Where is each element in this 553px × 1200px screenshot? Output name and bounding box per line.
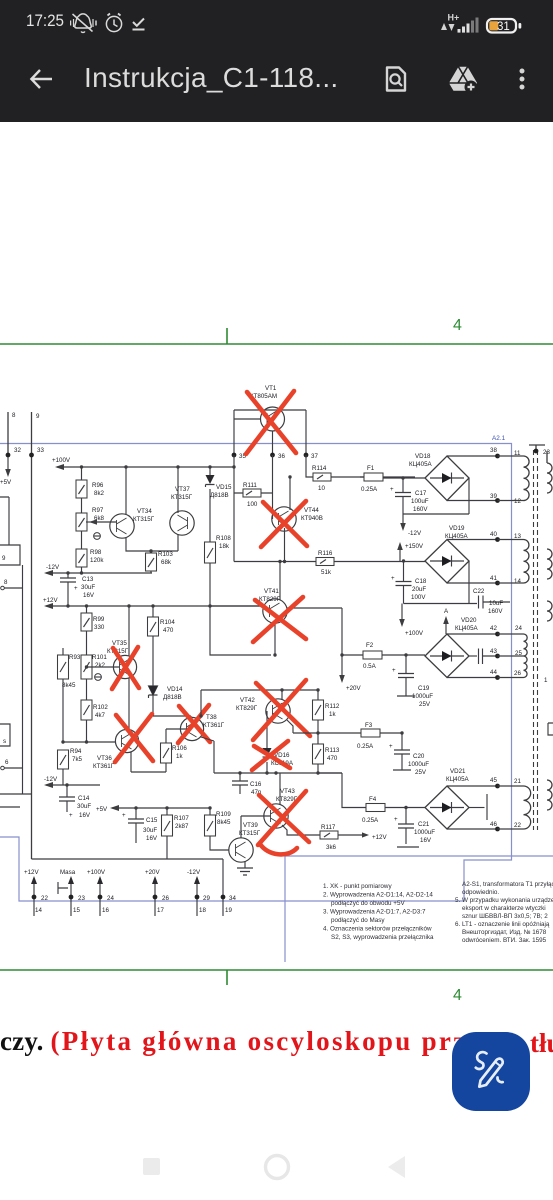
wire R116 to VD19 left vertex <box>402 559 405 562</box>
svg-text:0.5A: 0.5A <box>363 663 377 670</box>
red X over VT42 <box>253 680 310 740</box>
svg-text:25V: 25V <box>415 769 427 776</box>
wire VT42 base column + VD16 <box>266 711 268 773</box>
svg-text:120k: 120k <box>90 557 104 564</box>
svg-text:51k: 51k <box>321 569 332 576</box>
wire VD18 bottom to node39 <box>447 500 497 502</box>
svg-text:1k: 1k <box>176 753 183 760</box>
svg-text:R99: R99 <box>93 616 105 623</box>
find-in-page icon <box>381 64 411 94</box>
meas point 2 <box>95 674 102 681</box>
svg-text:46: 46 <box>490 821 497 828</box>
wire VT36 base bus <box>63 741 116 743</box>
pin +100V <box>87 869 114 916</box>
svg-text:31: 31 <box>497 21 510 33</box>
wire node36 column <box>272 455 274 519</box>
svg-text:8k2: 8k2 <box>94 490 105 497</box>
arrow +150V up <box>399 549 401 561</box>
wire VD19 bottom to node41 <box>447 582 497 584</box>
svg-text:КТ315Г: КТ315Г <box>133 516 155 523</box>
transformer secondary right clipped <box>547 451 552 810</box>
svg-text:VD15: VD15 <box>216 484 232 491</box>
point A arrow <box>445 623 447 634</box>
svg-text:+: + <box>392 667 396 674</box>
right clipped box <box>548 723 553 735</box>
back arrow <box>28 66 54 92</box>
wire VT35 emitter <box>128 678 130 729</box>
+12V rail <box>46 605 263 607</box>
capacitor bar right of VD21 <box>469 807 485 809</box>
transformer node column <box>490 447 522 831</box>
svg-text:18: 18 <box>199 907 206 914</box>
red X over VD16 <box>252 741 290 770</box>
svg-text:C21: C21 <box>418 821 430 828</box>
capacitor C14 <box>59 783 91 819</box>
wire VD20 bottom to node44 <box>447 677 497 679</box>
green top tick <box>226 328 228 344</box>
svg-text:+20V: +20V <box>145 869 160 876</box>
svg-text:КТ315Г: КТ315Г <box>171 494 193 501</box>
zener VD15 <box>206 467 233 542</box>
pin 6 stub <box>1 766 5 770</box>
svg-text:2k87: 2k87 <box>175 823 189 830</box>
svg-text:9: 9 <box>2 555 6 562</box>
svg-text:+: + <box>69 812 73 819</box>
left bus wire <box>22 565 24 794</box>
wire VT41 emitter return <box>210 606 275 655</box>
capacitor C22 <box>473 588 510 615</box>
svg-text:9: 9 <box>36 413 40 420</box>
svg-text:A2-S1, transformatora T1 przył: A2-S1, transformatora T1 przyłąc <box>462 881 553 888</box>
resistor R108 <box>205 535 232 606</box>
svg-text:1: 1 <box>544 677 548 684</box>
wire VT38 emitter to bus <box>201 737 214 773</box>
pin +12V <box>24 869 48 916</box>
svg-text:37: 37 <box>311 453 318 460</box>
wire VT41 base <box>210 605 263 607</box>
wire VD20 top to node42 <box>447 633 497 635</box>
svg-text:4: 4 <box>453 317 462 334</box>
svg-text:C17: C17 <box>415 490 427 497</box>
svg-text:VT39: VT39 <box>243 822 258 829</box>
svg-text:R106: R106 <box>172 745 187 752</box>
bridge VD19 <box>425 525 469 583</box>
transistor VT35 <box>107 640 137 679</box>
node 35 <box>232 453 237 458</box>
svg-text:6: 6 <box>5 759 9 766</box>
svg-text:10: 10 <box>318 485 325 492</box>
svg-text:16V: 16V <box>79 812 91 819</box>
svg-text:C19: C19 <box>418 685 430 692</box>
svg-text:25V: 25V <box>419 701 431 708</box>
transistor VT34 <box>110 508 155 538</box>
-12V rail lower <box>46 784 100 786</box>
wire 773 to F4 column <box>318 773 366 808</box>
svg-text:-12V: -12V <box>46 564 60 571</box>
left module box 5 <box>0 724 10 746</box>
diode VD16 <box>263 748 294 767</box>
svg-text:36: 36 <box>278 453 285 460</box>
svg-text:C14: C14 <box>78 795 90 802</box>
wire emitter return 772 <box>131 771 166 773</box>
svg-text:R103: R103 <box>158 551 173 558</box>
svg-text:+: + <box>74 585 78 592</box>
svg-text:eksport w charakterze wtyczki: eksport w charakterze wtyczki <box>462 905 546 912</box>
arrow +100V down from bus <box>401 604 403 621</box>
meas point 1 <box>94 533 101 540</box>
svg-text:odpowiednio.: odpowiednio. <box>462 889 499 896</box>
svg-text:+5V: +5V <box>0 479 12 486</box>
red X over VT35 <box>112 647 139 689</box>
resistor R98 <box>76 549 104 575</box>
svg-text:Т38: Т38 <box>206 714 217 721</box>
bottom nav <box>143 1158 160 1175</box>
svg-text:-12V: -12V <box>44 776 58 783</box>
capacitor C13 <box>60 571 95 607</box>
pin 8 stub <box>1 586 5 590</box>
wire input 8/32 <box>7 412 9 457</box>
resistor R101 <box>81 654 107 700</box>
svg-text:470: 470 <box>327 755 338 762</box>
svg-text:C15: C15 <box>146 817 158 824</box>
red X over VT41 <box>253 597 306 642</box>
wire 733 bus + fuse F3 <box>293 732 403 734</box>
svg-text:68k: 68k <box>161 559 172 566</box>
svg-text:2k2: 2k2 <box>95 662 106 669</box>
svg-text:R104: R104 <box>160 619 175 626</box>
svg-text:+: + <box>122 812 126 819</box>
pin +20V <box>145 869 169 916</box>
wire lower left 2 <box>0 806 20 808</box>
red X over VT44 <box>261 501 307 547</box>
fuse F4 <box>362 796 425 824</box>
fuse F1 <box>360 465 415 493</box>
red X over VT38 <box>178 705 210 743</box>
svg-text:-12V: -12V <box>408 530 422 537</box>
svg-text:26: 26 <box>162 895 169 902</box>
resistor R114 <box>312 465 364 492</box>
transistor VT41 <box>259 588 287 623</box>
green top rule <box>0 343 553 345</box>
svg-text:VT35: VT35 <box>112 640 127 647</box>
svg-text:19: 19 <box>225 907 232 914</box>
svg-text:30uF: 30uF <box>77 803 91 810</box>
svg-text:КТ829Г: КТ829Г <box>259 596 281 603</box>
svg-text:39: 39 <box>490 493 497 500</box>
svg-text:C18: C18 <box>415 578 427 585</box>
resistor R103 <box>146 551 174 573</box>
svg-text:8: 8 <box>12 412 16 419</box>
svg-text:R93: R93 <box>69 654 81 661</box>
svg-text:+20V: +20V <box>346 685 361 692</box>
arrow +5V down <box>7 457 9 470</box>
wire VT43 emitter to R117 <box>282 825 320 835</box>
notes column left <box>323 883 434 941</box>
svg-text:+150V: +150V <box>405 543 424 550</box>
transistor VT1 <box>250 385 285 431</box>
svg-text:8k45: 8k45 <box>217 819 231 826</box>
capacitor C19 <box>392 655 433 708</box>
svg-text:16V: 16V <box>420 837 432 844</box>
svg-text:VT37: VT37 <box>175 486 190 493</box>
svg-text:8k45: 8k45 <box>62 682 76 689</box>
svg-text:100: 100 <box>247 501 258 508</box>
VD18 minus bus <box>403 478 469 514</box>
transformer T1 windings <box>498 456 531 829</box>
capacitor C16 <box>232 773 262 796</box>
+5V rail lower <box>112 807 210 809</box>
svg-text:R101: R101 <box>92 654 107 661</box>
svg-text:podłączyć do Masy: podłączyć do Masy <box>331 917 385 924</box>
node 33 <box>29 453 34 458</box>
SCHEMATIC SVG <box>0 300 553 1010</box>
svg-text:7k5: 7k5 <box>72 756 83 763</box>
wire VT42 collector bus <box>201 690 318 716</box>
svg-text:22: 22 <box>514 822 521 829</box>
svg-text:VT43: VT43 <box>280 788 295 795</box>
svg-text:R109: R109 <box>216 811 231 818</box>
status bar icons left <box>70 12 150 34</box>
wire VT41 right to +20V column <box>287 608 342 676</box>
svg-text:VT44: VT44 <box>304 507 319 514</box>
svg-text:45: 45 <box>490 777 497 784</box>
node 36 <box>270 453 275 458</box>
svg-text:F2: F2 <box>366 642 374 649</box>
status bar icons right <box>440 8 540 36</box>
pin -12V <box>187 869 210 916</box>
svg-text:VD19: VD19 <box>449 525 465 532</box>
svg-text:42: 42 <box>490 625 497 632</box>
svg-text:470: 470 <box>163 627 174 634</box>
notes column right <box>455 881 553 944</box>
wire VT34 collector <box>125 467 127 515</box>
svg-text:17: 17 <box>157 907 164 914</box>
-12V rail upper <box>46 572 152 574</box>
svg-text:H+: H+ <box>448 13 460 23</box>
wire VT34 base link <box>91 521 117 523</box>
transistor VT43 <box>264 788 298 828</box>
svg-text:24: 24 <box>515 625 522 632</box>
svg-text:38: 38 <box>490 447 497 454</box>
svg-text:+: + <box>394 816 398 823</box>
svg-text:+: + <box>389 743 393 750</box>
svg-text:R108: R108 <box>216 535 231 542</box>
svg-text:R96: R96 <box>92 482 104 489</box>
svg-text:R116: R116 <box>318 550 333 557</box>
svg-text:44: 44 <box>490 669 497 676</box>
svg-text:+100V: +100V <box>52 457 71 464</box>
svg-text:F1: F1 <box>367 465 375 472</box>
svg-text:2. Wyprowadzenia A2-D1:14, A2-: 2. Wyprowadzenia A2-D1:14, A2-D2-14 <box>323 892 433 899</box>
svg-text:КТ940В: КТ940В <box>301 515 323 522</box>
blue frame A2.1 <box>0 444 512 902</box>
svg-text:КТ361Г: КТ361Г <box>203 722 225 729</box>
svg-text:КТ829Г: КТ829Г <box>236 705 258 712</box>
svg-text:30uF: 30uF <box>81 584 95 591</box>
svg-text:+100V: +100V <box>405 630 424 637</box>
red curve tail <box>260 844 297 854</box>
svg-text:16V: 16V <box>83 592 95 599</box>
capacitor C21 <box>394 806 435 847</box>
svg-text:1k: 1k <box>329 711 336 718</box>
svg-text:КТ315Г: КТ315Г <box>239 830 261 837</box>
wire VD18 top to node38 <box>447 455 497 457</box>
pin 34/19 <box>221 895 237 914</box>
svg-text:C16: C16 <box>250 781 262 788</box>
transistor VT42 <box>236 697 290 723</box>
transistor VT38 <box>180 714 224 741</box>
svg-text:R102: R102 <box>93 704 108 711</box>
wire F2 to VD20 left vertex <box>342 654 425 656</box>
svg-text:R97: R97 <box>92 507 104 514</box>
wire VT35 base <box>87 666 120 668</box>
red X over VT36 <box>115 714 153 762</box>
wire VD19 top to node40 <box>447 539 497 541</box>
svg-text:3k6: 3k6 <box>326 844 337 851</box>
svg-text:КЦ405А: КЦ405А <box>409 461 433 468</box>
svg-text:podłączyć do obwodu +5V: podłączyć do obwodu +5V <box>331 900 405 907</box>
wire VT35 collector <box>128 606 130 656</box>
svg-text:8: 8 <box>4 579 8 586</box>
svg-text:VD18: VD18 <box>415 453 431 460</box>
node 32 <box>6 453 11 458</box>
svg-text:R98: R98 <box>90 549 102 556</box>
svg-text:24: 24 <box>107 895 114 902</box>
svg-text:18k: 18k <box>219 543 230 550</box>
svg-text:Masa: Masa <box>60 869 76 876</box>
svg-text:33: 33 <box>37 447 44 454</box>
transistor VT37 <box>170 486 194 535</box>
svg-text:30uF: 30uF <box>143 827 157 834</box>
red caption <box>0 1026 553 1066</box>
svg-text:R112: R112 <box>325 703 340 710</box>
svg-text:Д818В: Д818В <box>210 492 229 499</box>
capacitor link to node43 <box>469 655 477 657</box>
capacitor C15 <box>122 806 158 843</box>
left module box 9 <box>0 497 20 565</box>
svg-text:100uF: 100uF <box>411 498 429 505</box>
bottom bus wire <box>32 859 224 916</box>
resistor R117 <box>320 824 387 851</box>
svg-text:R114: R114 <box>312 465 327 472</box>
svg-text:R113: R113 <box>325 747 340 754</box>
svg-text:R111: R111 <box>243 482 257 489</box>
svg-text:1000uF: 1000uF <box>412 693 433 700</box>
svg-text:VT1: VT1 <box>265 385 277 392</box>
resistor R112 <box>313 688 340 733</box>
svg-text:26: 26 <box>514 670 521 677</box>
svg-text:100V: 100V <box>411 594 426 601</box>
svg-text:+5V: +5V <box>96 806 108 813</box>
resistor R93 <box>58 648 81 742</box>
svg-text:0.25A: 0.25A <box>362 817 379 824</box>
arrow -12V down <box>402 514 404 524</box>
VD19 minus bus <box>404 561 478 604</box>
svg-text:15: 15 <box>73 907 80 914</box>
svg-text:3. Wyprowadzenia A2-D1:7, A2-D: 3. Wyprowadzenia A2-D1:7, A2-D3:7 <box>323 909 426 916</box>
svg-text:A: A <box>444 608 449 615</box>
red X over VT1 <box>246 391 296 454</box>
svg-text:16: 16 <box>102 907 109 914</box>
wire VT1 top loop <box>234 410 306 455</box>
red X over VT43 <box>258 791 309 845</box>
svg-text:0.25A: 0.25A <box>361 486 378 493</box>
resistor R96 <box>76 465 105 498</box>
svg-text:C20: C20 <box>413 753 425 760</box>
svg-text:20uF: 20uF <box>412 586 426 593</box>
svg-text:23: 23 <box>78 895 85 902</box>
wire VT44 collector <box>289 477 291 510</box>
transformer top lead <box>529 445 545 452</box>
wire VT42 emitter <box>287 720 293 733</box>
svg-text:Д818В: Д818В <box>163 694 182 701</box>
svg-text:43: 43 <box>490 648 497 655</box>
svg-text:12: 12 <box>514 498 521 505</box>
junction VD15 rail <box>208 465 211 468</box>
svg-text:VT41: VT41 <box>264 588 279 595</box>
resistor R111 <box>234 482 273 508</box>
wire 773 bus <box>214 772 342 774</box>
svg-text:F4: F4 <box>369 796 377 803</box>
svg-text:40: 40 <box>490 531 497 538</box>
svg-text:S2, S3, wyprowadzenia przełącz: S2, S3, wyprowadzenia przełącznika <box>331 934 434 941</box>
green bottom tick <box>226 970 228 985</box>
wire VT44 emitter <box>284 528 286 562</box>
wire VT43 collector <box>279 773 281 805</box>
wire node35 column <box>233 455 235 562</box>
svg-text:VD21: VD21 <box>450 768 466 775</box>
bridge VD20 <box>425 617 479 678</box>
svg-text:41: 41 <box>490 575 497 582</box>
svg-text:0.25A: 0.25A <box>357 743 374 750</box>
transistor VT39 <box>229 822 261 862</box>
wire VD21 top to node45 <box>447 785 497 787</box>
svg-text:16V: 16V <box>146 835 158 842</box>
resistor R99 <box>81 604 105 667</box>
bridge VD18 <box>409 453 469 501</box>
resistor R97 trimmer <box>76 498 105 549</box>
svg-text:6. LT1 - oznaczenie linii opóź: 6. LT1 - oznaczenie linii opóźniają <box>455 921 550 928</box>
svg-text:6k8: 6k8 <box>94 515 105 522</box>
svg-text:КТ361Г: КТ361Г <box>93 763 115 770</box>
svg-text:+: + <box>391 575 395 582</box>
svg-text:C13: C13 <box>82 576 94 583</box>
capacitor C18 <box>391 561 427 604</box>
svg-text:160V: 160V <box>488 608 503 615</box>
svg-text:-12V: -12V <box>187 869 201 876</box>
wire lower left <box>0 793 32 795</box>
resistor R116 <box>316 550 425 576</box>
wire node37 column <box>306 455 313 477</box>
wire F1 to VD18 left vertex <box>383 477 425 479</box>
svg-text:R117: R117 <box>321 824 336 831</box>
svg-text:34: 34 <box>229 895 236 902</box>
wire emitters join <box>126 534 178 553</box>
fuse F3 <box>357 722 380 750</box>
resistor R113 <box>313 733 340 773</box>
capacitor C20 <box>389 731 429 776</box>
resistor R102 <box>81 700 108 742</box>
svg-text:КЦ405А: КЦ405А <box>455 625 479 632</box>
svg-text:160V: 160V <box>413 506 428 513</box>
resistor R106 <box>161 729 188 772</box>
svg-text:330: 330 <box>94 624 105 631</box>
resistor R107 <box>162 806 190 859</box>
svg-text:14: 14 <box>514 578 521 585</box>
transistor VT36 <box>93 729 139 770</box>
zener VD14 <box>149 686 184 716</box>
svg-text:Внешторгиздат, Изд. № 1678: Внешторгиздат, Изд. № 1678 <box>462 929 547 936</box>
